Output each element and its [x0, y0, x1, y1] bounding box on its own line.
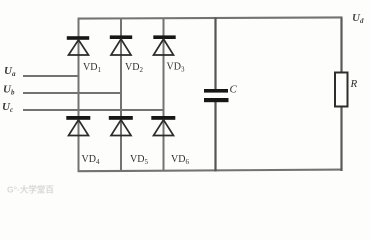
diode VD2 — [110, 35, 132, 55]
label C — [230, 84, 238, 96]
resistor R body — [335, 73, 348, 107]
label VD2 — [125, 62, 143, 74]
label Ud — [352, 12, 364, 25]
wire leg 2 (VD2/VD5 column) — [120, 18, 122, 172]
capacitor C plates — [204, 89, 229, 102]
wire bottom bus — [78, 170, 343, 172]
label Uc — [2, 101, 13, 114]
label VD1 — [83, 62, 101, 74]
svg-text:C: C — [230, 84, 238, 96]
wire leg 1 (VD1/VD4 column) — [78, 18, 80, 172]
svg-text:R: R — [350, 78, 358, 90]
svg-text:G°·大学堂百: G°·大学堂百 — [7, 185, 54, 195]
diode VD4 — [66, 116, 90, 136]
label R — [350, 78, 358, 90]
wire load branch lower — [340, 106, 342, 171]
wire capacitor branch upper — [214, 18, 216, 90]
label VD4 — [82, 154, 100, 166]
wire phase A input — [23, 75, 79, 77]
diode VD3 — [153, 35, 175, 55]
diode VD6 — [151, 116, 175, 136]
label VD3 — [167, 62, 185, 74]
label VD6 — [171, 154, 189, 166]
diode VD1 — [67, 36, 89, 55]
wire leg 3 (VD3/VD6 column) — [163, 18, 165, 172]
label Ub — [3, 84, 15, 97]
label VD5 — [130, 154, 148, 166]
diode VD5 — [109, 116, 133, 136]
wire phase C input — [23, 109, 164, 111]
wire phase B input — [23, 92, 122, 94]
wire top bus — [78, 17, 343, 18]
wire load branch upper — [340, 18, 342, 74]
label Ua — [4, 65, 16, 78]
watermark — [7, 185, 54, 195]
wire capacitor branch lower — [214, 102, 216, 172]
